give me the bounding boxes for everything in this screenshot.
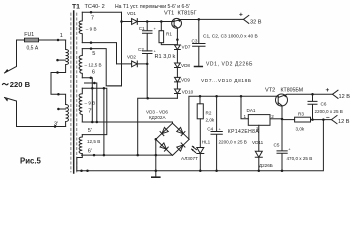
C3 ground bar: [195, 66, 203, 68]
svg-text:VT1: VT1: [164, 11, 174, 17]
transformer T1 secondary winding 5-6 (12.5V): [79, 49, 82, 78]
transformer screen dashed right: [76, 13, 78, 172]
svg-text:VD7: VD7: [182, 45, 191, 50]
wire AC live top: [5, 40, 66, 73]
HL1 arrows: [192, 146, 197, 152]
svg-text:ТС40- 2: ТС40- 2: [85, 4, 105, 10]
wire bridge left to ground: [155, 139, 157, 177]
wire C2 bottom to node: [146, 64, 148, 98]
svg-text:АЛ307Т: АЛ307Т: [181, 156, 198, 161]
svg-text:3,0k: 3,0k: [296, 126, 305, 131]
diode VD2: [132, 61, 138, 67]
wire secondary 7' top: [82, 88, 107, 134]
zener diode VD9: [175, 77, 181, 89]
wire secondary 7' bottom to bridge: [82, 122, 172, 123]
node primary join: [56, 71, 59, 74]
resistor R1: [160, 22, 162, 31]
svg-text:R1 3,0 k: R1 3,0 k: [155, 54, 176, 60]
svg-text:1: 1: [60, 33, 63, 39]
svg-text:VD7...VD10 Д818Б: VD7...VD10 Д818Б: [201, 78, 252, 84]
svg-text:–: –: [326, 114, 330, 121]
svg-text:3: 3: [256, 126, 259, 131]
svg-text:Д226Б: Д226Б: [259, 163, 273, 168]
svg-text:C5: C5: [274, 142, 280, 147]
svg-text:2,0k: 2,0k: [206, 117, 215, 122]
transformer core solid: [73, 11, 75, 173]
svg-text:VD8: VD8: [181, 63, 190, 68]
svg-text:Т1: Т1: [72, 4, 80, 11]
bridge diode lower-left VD5: [160, 143, 168, 151]
node R1 top: [160, 20, 163, 23]
svg-text:32 В: 32 В: [250, 19, 262, 25]
transformer T1 secondary winding 5'-6' (12.5V): [77, 135, 83, 171]
AC input arrow top: [4, 69, 9, 73]
wire rail 155 (6' tap to bridge): [82, 154, 173, 156]
node pin 3': [54, 125, 57, 128]
svg-text:2200,0 х 25 В: 2200,0 х 25 В: [219, 140, 247, 145]
svg-text:– 9 В: – 9 В: [85, 101, 96, 106]
diode VD1: [132, 19, 138, 25]
svg-text:FU1: FU1: [24, 32, 34, 38]
svg-text:2: 2: [271, 114, 274, 119]
node VD2 C2: [146, 63, 149, 66]
wire DA1 pin3: [258, 125, 260, 151]
wire W_left: [138, 98, 178, 155]
svg-text:6': 6': [88, 148, 92, 154]
transformer T1 secondary winding 7 (9V): [79, 12, 82, 42]
svg-text:C4: C4: [207, 126, 213, 131]
svg-text:C6: C6: [321, 101, 327, 106]
capacitor C5: [277, 119, 287, 171]
node C2 bottom: [146, 97, 149, 100]
wire -12 drop: [77, 120, 324, 171]
svg-text:5': 5': [88, 128, 92, 134]
ground: [152, 176, 160, 178]
svg-text:12 В: 12 В: [339, 94, 350, 100]
svg-text:R2: R2: [206, 111, 212, 116]
wire VT2 collector / R3 node: [281, 118, 284, 121]
wire secondary 7 top: [82, 11, 121, 13]
node C1 top: [146, 20, 149, 23]
svg-text:VT2: VT2: [265, 88, 275, 94]
transistor VT2: [276, 94, 288, 106]
svg-text:+: +: [326, 87, 330, 94]
resistor R2: [199, 96, 201, 104]
wire V1 vertical: [108, 12, 121, 86]
wire secondary 5 top: [82, 49, 121, 86]
terminal +32V arrow: [244, 15, 249, 23]
transformer T1 primary winding lower: [66, 105, 69, 127]
svg-text:Рис.5: Рис.5: [20, 156, 41, 165]
node zener chain top: [176, 38, 179, 41]
node pin 1: [57, 39, 60, 42]
resistor R3: [282, 119, 295, 121]
wire AC neutral bottom: [5, 98, 66, 127]
svg-text:0,5 А: 0,5 А: [27, 45, 39, 51]
terminal +12V arrow: [333, 90, 339, 98]
wire secondary 6 lower jumper: [85, 83, 97, 122]
transformer T1 primary winding upper: [51, 40, 68, 105]
zener diode VD10: [175, 89, 181, 98]
wire VD1 rail: [122, 21, 175, 23]
capacitor C4: [211, 96, 222, 171]
wire DA1 pin1: [241, 96, 248, 119]
wire +32 rail: [199, 18, 244, 20]
IC DA1 box: [248, 115, 270, 126]
svg-text:3': 3': [54, 121, 58, 127]
wire secondary pin 6: [82, 78, 92, 122]
svg-text:VD3 - VD6: VD3 - VD6: [146, 110, 168, 115]
LED HL1: [197, 148, 204, 171]
svg-text:– 12,5 В: – 12,5 В: [85, 63, 102, 68]
svg-text:C2: C2: [138, 47, 144, 52]
svg-text:7': 7': [88, 108, 92, 114]
diode VD11: [255, 151, 262, 171]
svg-text:КД202А: КД202А: [149, 115, 166, 120]
svg-text:12,5 В: 12,5 В: [87, 139, 100, 144]
svg-text:HL1: HL1: [202, 139, 211, 144]
svg-text:C1: C1: [139, 26, 145, 31]
svg-text:– 9 В: – 9 В: [86, 26, 97, 31]
wire secondary 7 bottom: [82, 43, 116, 64]
terminal -12V arrow: [332, 116, 338, 124]
transistor VT1: [172, 18, 182, 28]
node primary join 2: [57, 93, 60, 96]
svg-text:220 В: 220 В: [10, 80, 31, 89]
svg-text:VD10: VD10: [182, 89, 194, 94]
wire drop to rail: [103, 88, 105, 155]
svg-text:6: 6: [92, 69, 95, 75]
capacitor C1: [143, 22, 153, 51]
zener diode VD7: [175, 40, 181, 63]
transformer screen dashed left: [70, 13, 72, 172]
label ~220V: [2, 83, 8, 85]
fuse FU1: [25, 38, 39, 42]
svg-text:7: 7: [91, 15, 94, 21]
svg-text:КТ815Г: КТ815Г: [178, 11, 197, 17]
node bridge left: [155, 138, 158, 141]
svg-text:R1: R1: [166, 32, 172, 37]
diode bridge VD3-VD6: [156, 123, 189, 155]
bottom rail dots: [80, 170, 83, 173]
svg-text:1: 1: [244, 114, 247, 119]
wire VD2 rail: [117, 63, 148, 65]
wire DA1 pin2: [270, 118, 282, 120]
svg-text:VD2: VD2: [127, 55, 136, 60]
svg-text:C1, C2, C3 1000,0 х 40 В: C1, C2, C3 1000,0 х 40 В: [203, 34, 258, 40]
svg-text:VD9: VD9: [181, 77, 190, 82]
svg-text:12 В: 12 В: [338, 119, 350, 125]
primary tap 2: [58, 59, 66, 61]
svg-text:На Т1 уст. перемычки 5-6' и 6: На Т1 уст. перемычки 5-6' и 6-5': [115, 4, 190, 10]
svg-text:VD1, VD2 Д226Б: VD1, VD2 Д226Б: [206, 61, 253, 67]
svg-text:C3: C3: [192, 38, 198, 43]
capacitor C2: [143, 51, 153, 64]
svg-text:+: +: [239, 12, 243, 19]
AC input arrow bottom: [4, 97, 8, 101]
svg-text:R3: R3: [298, 111, 304, 116]
zener diode VD8: [175, 63, 181, 77]
capacitor C3: [193, 19, 205, 66]
wire W_right: [189, 96, 278, 139]
bridge diode upper-left VD3: [160, 127, 168, 135]
svg-text:КР142ЕН8А: КР142ЕН8А: [228, 129, 260, 135]
svg-text:КТ805БМ: КТ805БМ: [281, 88, 304, 94]
svg-text:470,0 х 25 В: 470,0 х 25 В: [287, 156, 313, 161]
primary tap lower: [58, 108, 65, 110]
bridge diode lower-right VD6: [177, 143, 185, 151]
svg-text:DA1: DA1: [247, 108, 256, 113]
node C3 top: [198, 18, 201, 21]
bridge diode upper-right VD4: [177, 127, 185, 135]
capacitor C6: [308, 94, 317, 119]
transformer T1 secondary winding 7' (9V): [79, 88, 82, 122]
svg-text:VD1: VD1: [127, 11, 136, 16]
svg-text:5: 5: [92, 51, 95, 57]
svg-text:VD11: VD11: [252, 140, 264, 145]
